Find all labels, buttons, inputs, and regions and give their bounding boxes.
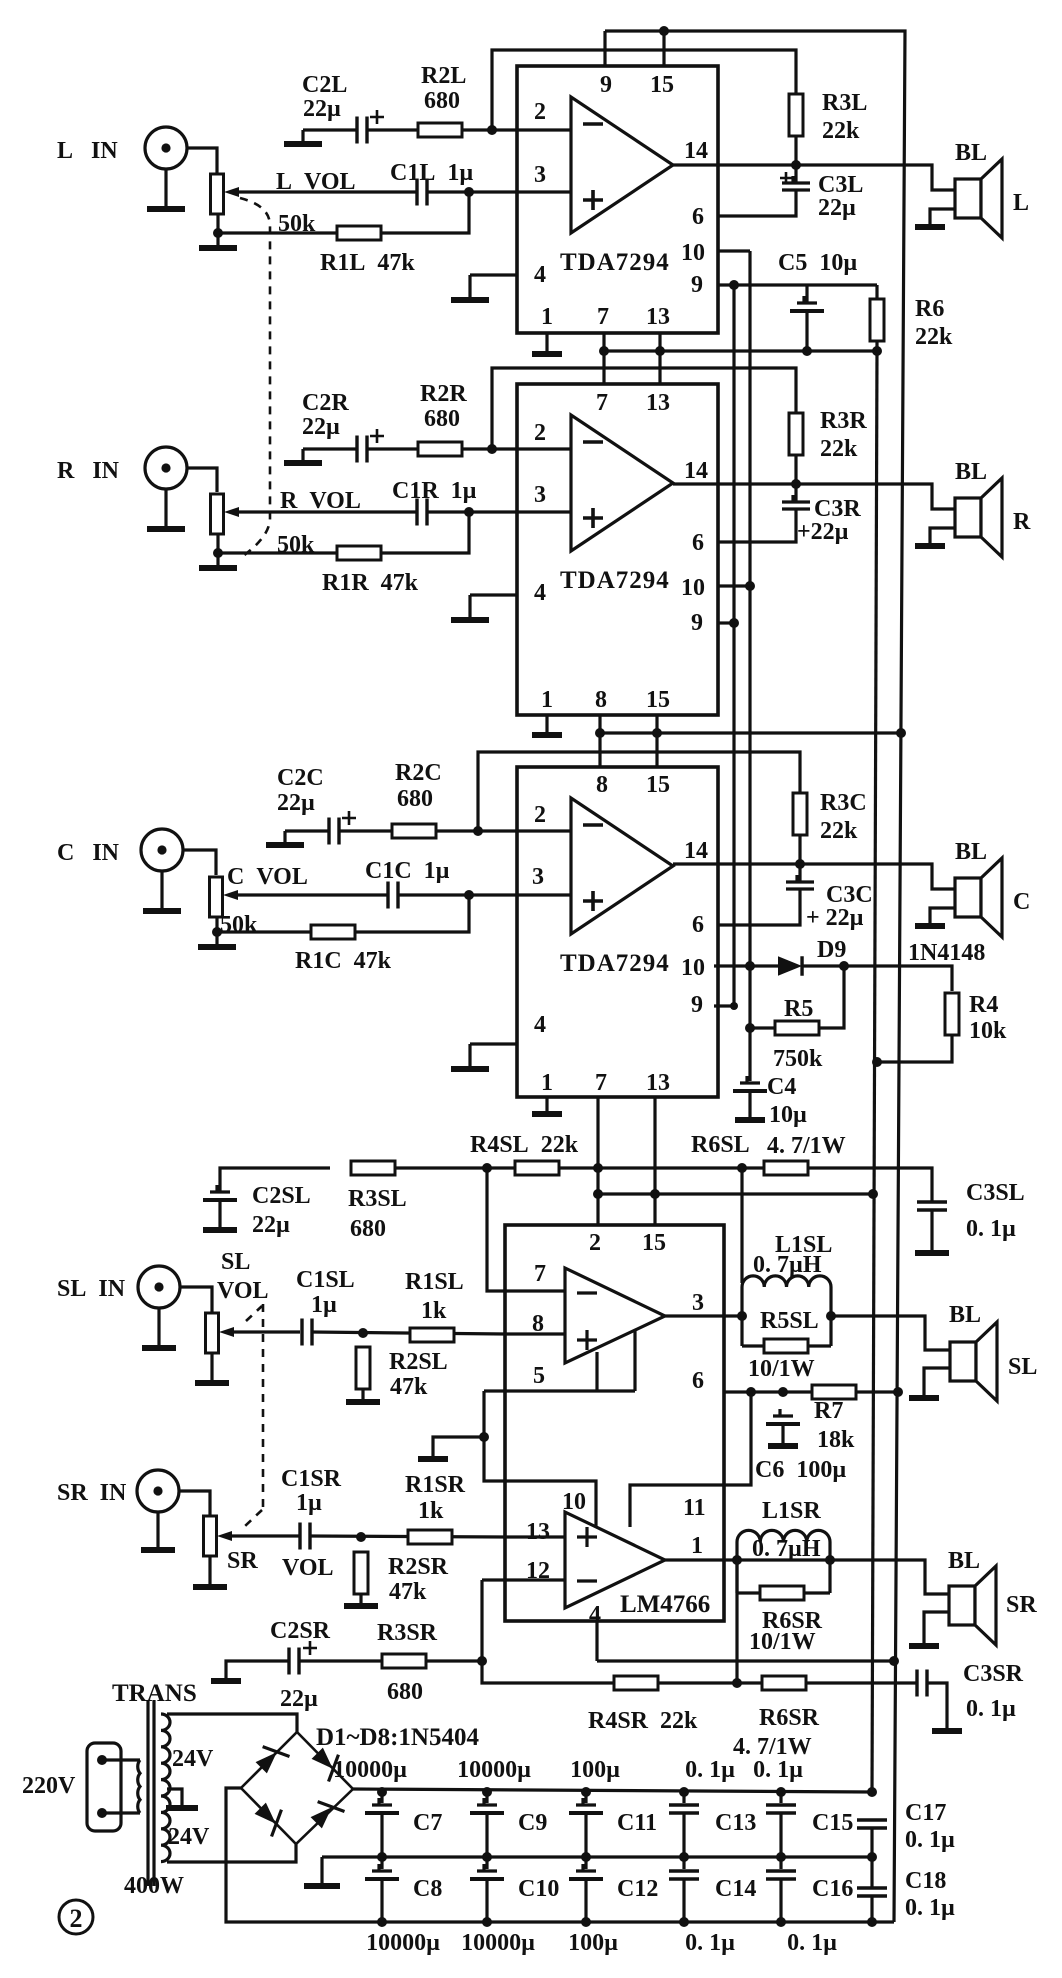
wire pin5-pin6 row inside (505, 1389, 635, 1392)
diode D9 1N4148 (778, 956, 802, 976)
svg-text:BL: BL (948, 1548, 980, 1574)
svg-text:C11: C11 (617, 1810, 657, 1836)
svg-text:13: 13 (646, 390, 670, 416)
ground speaker C (928, 924, 931, 927)
diode bridge bottom-left (252, 1798, 290, 1836)
wire pin 9 (C) to stby rail (714, 1004, 734, 1007)
resistor R6SR 10/1W (760, 1586, 804, 1600)
svg-text:C15: C15 (812, 1810, 853, 1836)
svg-text:C7: C7 (413, 1810, 442, 1836)
node R3L/output junction (791, 160, 801, 170)
node rail C middle rail (867, 1852, 877, 1862)
diode bridge bottom-right (306, 1793, 344, 1831)
ground under C pot (215, 932, 218, 947)
ground speaker L (928, 225, 931, 228)
wire to C10 (485, 1857, 488, 1869)
wire pin4 row to rail D (597, 1659, 894, 1662)
speaker BL R (955, 498, 981, 537)
wire C16 to bottom rail (779, 1879, 782, 1922)
svg-text:6: 6 (692, 1368, 704, 1394)
inductor L1SR 0.7uH (737, 1530, 830, 1542)
node R5 on mute rail (745, 1023, 755, 1033)
wire C7 to middle rail (380, 1813, 383, 1857)
node column 1 bottom (377, 1917, 387, 1927)
svg-text:3: 3 (534, 482, 546, 508)
resistor R1SR 1k (408, 1530, 452, 1544)
wire pin 4 stub C (470, 1042, 517, 1045)
node C15 top (776, 1787, 786, 1797)
wire R5SL leads (742, 1344, 831, 1347)
wire wiper to C1C (237, 893, 388, 896)
wire R3SL to R4SL (395, 1166, 515, 1169)
svg-text:R5: R5 (784, 996, 813, 1022)
wire pin 10 (C) to D9 (714, 964, 778, 967)
wire C IN to volume pot (183, 850, 216, 875)
node L1SR right on out row (825, 1555, 835, 1565)
wire to C18 (870, 1857, 873, 1888)
plus mark C2L (370, 110, 384, 124)
svg-text:1k: 1k (421, 1298, 447, 1324)
wire pins7/13 line y351 (604, 349, 877, 352)
wire ground to C2C (285, 829, 329, 832)
wire riser IC3 pin7 to IC4 pin2 (596, 1097, 599, 1225)
IC LM4766 box (505, 1225, 724, 1621)
svg-text:7: 7 (595, 1070, 607, 1096)
wire feedback line to R3L (492, 50, 796, 130)
node column 1 middle (377, 1852, 387, 1862)
svg-text:R3SL: R3SL (348, 1186, 407, 1212)
wire pin5/pin10 mute riser (484, 1391, 505, 1481)
resistor R5 750k (775, 1021, 819, 1035)
wiper arrow C VOL (223, 890, 238, 900)
svg-text:0. 7µH: 0. 7µH (752, 1536, 821, 1562)
wire pin15 riser IC2-IC3 (655, 715, 658, 767)
svg-text:L1SL: L1SL (775, 1232, 832, 1258)
resistor R2SR 47k (354, 1552, 368, 1594)
node junction pin15 riser on top rail (659, 26, 669, 36)
node pin3 feedback junction R (464, 507, 474, 517)
wire pin1 (IC1) to ground (545, 333, 548, 352)
svg-text:0. 1µ: 0. 1µ (753, 1757, 803, 1783)
wire line y733 to rail D (600, 731, 901, 734)
wire op-amp B out to pin1 (665, 1558, 724, 1561)
svg-text:6: 6 (692, 530, 704, 556)
node pin10(C) on mute rail (745, 961, 755, 971)
node SR output on zobel row (732, 1678, 742, 1688)
node pot bottom junction C (212, 927, 222, 937)
svg-text:680: 680 (424, 88, 460, 114)
wire pin 4 stub R (470, 593, 517, 596)
wire op-amp A out to pin3 (665, 1314, 724, 1317)
wire output pin14 row R (718, 484, 955, 509)
inductor L1SL 0.7uH (742, 1276, 831, 1287)
svg-text:R6: R6 (915, 296, 944, 322)
plug pin top (97, 1755, 107, 1765)
svg-text:10: 10 (681, 240, 705, 266)
wire secondary top to bridge (167, 1714, 297, 1732)
wire wiper to C1R (238, 510, 417, 513)
svg-text:3: 3 (534, 162, 546, 188)
capacitor C2SL 22u (210, 1185, 230, 1192)
wire to R1C (217, 930, 311, 933)
wire secondary centre tap (167, 1789, 182, 1806)
diode bridge top-right (309, 1743, 347, 1781)
svg-text:1N4148: 1N4148 (908, 940, 985, 966)
svg-text:BL: BL (955, 140, 987, 166)
svg-text:10000µ: 10000µ (461, 1930, 535, 1956)
svg-text:13: 13 (646, 1070, 670, 1096)
svg-text:2: 2 (589, 1230, 601, 1256)
wire R2L to pin 2 (462, 128, 517, 131)
wire D9 cathode to R4 (803, 966, 952, 991)
plus mark C3L (780, 172, 792, 184)
wire R2C to pin 2 (436, 829, 517, 832)
wire R3C to output (798, 835, 801, 864)
svg-text:14: 14 (684, 838, 708, 864)
wire C4 to ground (748, 1091, 751, 1118)
svg-text:C10: C10 (518, 1876, 559, 1902)
bridge rectifier diamond D1-D8 (241, 1732, 353, 1844)
svg-text:R2R: R2R (420, 381, 467, 407)
node pin2/R3R junction (487, 444, 497, 454)
wire pin10 to op-amp B (505, 1481, 596, 1527)
resistor R1R 47k (337, 546, 381, 560)
svg-text:LM4766: LM4766 (620, 1591, 710, 1618)
svg-text:50k: 50k (220, 912, 258, 938)
svg-text:10k: 10k (969, 1018, 1007, 1044)
capacitor C15 (766, 1805, 796, 1813)
svg-text:BL: BL (955, 839, 987, 865)
ground for C2R (301, 449, 304, 463)
svg-text:22µ: 22µ (302, 414, 340, 440)
svg-text:C5 10µ: C5 10µ (778, 250, 857, 276)
svg-text:R6SL: R6SL (691, 1132, 750, 1158)
wire C5 to lower line (805, 311, 808, 351)
svg-text:R1L 47k: R1L 47k (320, 250, 415, 276)
RCA jack SL IN (138, 1266, 180, 1308)
node R2SL junction (358, 1328, 368, 1338)
figure number 2 circled (59, 1900, 93, 1934)
transformer primary winding (138, 1760, 140, 1813)
resistor R3C 22k (793, 793, 807, 835)
capacitor C17 0.1u (857, 1820, 887, 1828)
svg-text:15: 15 (650, 72, 674, 98)
ground SL pot (210, 1381, 213, 1383)
svg-text:22µ: 22µ (280, 1686, 318, 1712)
node pin9(R) on stby rail (729, 618, 739, 628)
svg-text:15: 15 (646, 687, 670, 713)
RCA jack C IN (141, 829, 183, 871)
wire R4SL node down to pin 7 LM4766 (487, 1168, 505, 1291)
svg-text:C3SL: C3SL (966, 1180, 1025, 1206)
resistor R4 10k (945, 993, 959, 1035)
svg-text:50k: 50k (277, 532, 315, 558)
wire op-amp out to pin14 (673, 862, 718, 865)
wire bridge plus to top rail (353, 1789, 872, 1792)
resistor R3R 22k (789, 413, 803, 455)
svg-text:C VOL: C VOL (227, 864, 308, 890)
svg-text:1k: 1k (418, 1498, 444, 1524)
svg-text:750k: 750k (773, 1046, 823, 1072)
svg-text:1µ: 1µ (296, 1490, 322, 1516)
resistor R2SL 47k (356, 1347, 370, 1389)
svg-text:4: 4 (534, 1012, 546, 1038)
ground R2SL (361, 1400, 364, 1402)
wire output node riser to zobel row (740, 1168, 743, 1283)
potentiometer SL VOL (206, 1313, 219, 1353)
ground centre tap (180, 1806, 183, 1808)
capacitor C5 10u (797, 296, 817, 303)
svg-text:1: 1 (541, 687, 553, 713)
node rail C bottom rail (867, 1917, 877, 1927)
svg-text:22k: 22k (820, 818, 858, 844)
wire L IN to volume pot (187, 148, 217, 174)
node output riser on row 1168 (737, 1163, 747, 1173)
svg-text:C2L: C2L (302, 72, 347, 98)
dashed gang line L-R volume (240, 198, 270, 556)
svg-text:9: 9 (600, 72, 612, 98)
capacitor C8 (372, 1864, 392, 1871)
svg-text:R3L: R3L (822, 90, 867, 116)
RCA jack SR IN (137, 1470, 179, 1512)
svg-text:SR: SR (227, 1548, 258, 1574)
svg-text:BL: BL (949, 1302, 981, 1328)
capacitor C3SL 0.1u (917, 1202, 947, 1210)
svg-text:15: 15 (646, 772, 670, 798)
node C9 top (482, 1787, 492, 1797)
svg-text:680: 680 (350, 1216, 386, 1242)
capacitor C11 (576, 1798, 596, 1805)
wire pin5 riser to op-amp A (595, 1352, 598, 1391)
svg-text:10: 10 (681, 575, 705, 601)
wire standby rail (pin9 bus, x734) (732, 285, 735, 1006)
wire output pin14 row L (718, 165, 955, 190)
ground under R IN jack (164, 527, 167, 530)
wire R4SL to output node riser (559, 1166, 742, 1169)
wire pin 10 (R) to mute rail (718, 584, 750, 587)
wire pin2 into op-amp minus (517, 128, 571, 131)
svg-text:C13: C13 (715, 1810, 756, 1836)
capacitor C3SR 0.1u (917, 1670, 927, 1697)
wire R2SR to ground (359, 1594, 362, 1604)
ground speaker SR (922, 1644, 925, 1646)
svg-text:13: 13 (526, 1519, 550, 1545)
wire speaker SL lower to ground (924, 1368, 950, 1396)
capacitor C4 10u (740, 1076, 760, 1083)
capacitor C2R 22u electrolytic (357, 436, 367, 463)
wire to R1R (218, 551, 337, 554)
wiper arrow L VOL (224, 187, 239, 197)
svg-text:C6 100µ: C6 100µ (755, 1457, 846, 1483)
IC TDA7294 (L channel) box (517, 66, 718, 333)
wire pin2 into op-amp minus (517, 447, 571, 450)
wire feedback line to R3C (478, 752, 800, 831)
wire R2R to pin 2 (462, 447, 517, 450)
svg-text:2: 2 (534, 99, 546, 125)
node column 5 middle (776, 1852, 786, 1862)
mains plug 220V (87, 1743, 121, 1831)
svg-text:+22µ: +22µ (797, 519, 849, 545)
wire SL pot to ground (210, 1353, 213, 1381)
wire pin 15 riser to top rail (L) (662, 31, 665, 66)
svg-text:+ 22µ: + 22µ (806, 905, 864, 931)
node R4SL left junction (482, 1163, 492, 1173)
svg-text:2: 2 (534, 420, 546, 446)
svg-text:11: 11 (683, 1495, 706, 1521)
node column 4 middle (679, 1852, 689, 1862)
ground SR jack (156, 1548, 159, 1550)
wire to C12 (584, 1857, 587, 1869)
ground R2SR (359, 1604, 362, 1606)
wiper arrow R VOL (224, 507, 239, 517)
resistor R2L 680 (418, 123, 462, 137)
wire rail C (x874 supply rail down right side) (872, 351, 877, 1792)
node R3SR junction (477, 1656, 487, 1666)
wire SL jack to ground (157, 1308, 160, 1346)
wire R IN to volume pot (187, 468, 217, 492)
wire C3SR to ground (927, 1683, 947, 1729)
svg-text:C8: C8 (413, 1876, 442, 1902)
svg-text:C2R: C2R (302, 390, 349, 416)
IC TDA7294 (C channel) box (517, 767, 718, 1097)
resistor R2C 680 (392, 824, 436, 838)
resistor R3L 22k (789, 94, 803, 136)
svg-text:L1SR: L1SR (762, 1498, 821, 1524)
svg-text:8: 8 (532, 1311, 544, 1337)
diode bridge top-left (251, 1738, 289, 1776)
svg-text:47k: 47k (390, 1374, 428, 1400)
svg-text:18k: 18k (817, 1427, 855, 1453)
wire pin3 out row to speaker SL (831, 1316, 950, 1350)
svg-text:10000µ: 10000µ (457, 1757, 531, 1783)
wire middle rail (322, 1855, 872, 1858)
wire plug to primary (102, 1760, 140, 1813)
ground speaker R (928, 544, 931, 547)
wire C17 to middle rail (870, 1828, 873, 1857)
svg-text:R2SR: R2SR (388, 1554, 449, 1580)
svg-text:R7: R7 (814, 1398, 843, 1424)
wire pin4 riser (595, 1621, 598, 1661)
wire pin11 riser to op-amp B (630, 1485, 724, 1527)
node column 2 bottom (482, 1917, 492, 1927)
wire C2C to R2C (339, 829, 392, 832)
wire C1R to pin 3 (427, 510, 517, 513)
svg-text:10/1W: 10/1W (748, 1356, 815, 1382)
wire R3R to output (794, 455, 797, 484)
wire C11 to middle rail (584, 1813, 587, 1857)
wire pin1 (IC3) to ground (545, 1097, 548, 1112)
node pin4 on rail D (889, 1656, 899, 1666)
wire (742, 1166, 764, 1169)
node column 2 middle (482, 1852, 492, 1862)
svg-text:C14: C14 (715, 1876, 756, 1902)
speaker BL SR (949, 1586, 975, 1625)
node pin7 riser junction y351 (599, 346, 609, 356)
svg-text:10: 10 (681, 955, 705, 981)
svg-text:6: 6 (692, 204, 704, 230)
svg-text:R3R: R3R (820, 408, 867, 434)
wire C14 to bottom rail (682, 1879, 685, 1922)
wire C12 to bottom rail (584, 1879, 587, 1922)
capacitor C2C 22u electrolytic (329, 818, 339, 845)
svg-text:0. 1µ: 0. 1µ (685, 1930, 735, 1956)
ground pin 4 L (468, 275, 471, 300)
wire pot bottom to R1L row (216, 214, 219, 233)
wire to C16 (779, 1857, 782, 1869)
wire C13 to middle rail (682, 1813, 685, 1857)
svg-text:VOL: VOL (217, 1278, 269, 1304)
svg-text:9: 9 (691, 272, 703, 298)
node column 3 bottom (581, 1917, 591, 1927)
ground for C2L (301, 130, 304, 144)
speaker BL L (955, 179, 981, 218)
wire to C15 (779, 1792, 782, 1803)
RCA jack L IN (145, 127, 187, 169)
wire speaker L lower terminal to ground (930, 209, 955, 227)
wire SR jack to ground (156, 1512, 159, 1548)
svg-text:R2C: R2C (395, 760, 442, 786)
svg-text:24V: 24V (168, 1824, 210, 1850)
svg-text:680: 680 (397, 786, 433, 812)
wire pin7 riser IC1-IC2 (602, 333, 605, 384)
node pin3 feedback junction L (464, 187, 474, 197)
wire R6SR to C3SR (806, 1681, 916, 1684)
node pin9(L) on stby rail (729, 280, 739, 290)
node R3C/output junction (795, 859, 805, 869)
wire pin8 into op-amp A plus (505, 1332, 565, 1335)
svg-text:4: 4 (534, 262, 546, 288)
svg-text:C16: C16 (812, 1876, 853, 1902)
ground pin 1 IC2 (545, 733, 548, 735)
node C6 on pin6 row (778, 1387, 788, 1397)
wire pin 9 riser to top rail (L) (603, 31, 606, 66)
capacitor C12 (576, 1864, 596, 1871)
svg-text:8: 8 (595, 687, 607, 713)
svg-text:1: 1 (541, 1070, 553, 1096)
svg-text:14: 14 (684, 458, 708, 484)
ground SL jack (157, 1346, 160, 1348)
capacitor C3L 22u (718, 165, 810, 216)
transformer secondary winding (161, 1714, 170, 1862)
node C13 top (679, 1787, 689, 1797)
potentiometer C VOL 50k (210, 877, 223, 917)
svg-text:10µ: 10µ (769, 1102, 807, 1128)
wire speaker R lower terminal to ground (930, 528, 955, 546)
svg-text:1: 1 (541, 304, 553, 330)
svg-text:C12: C12 (617, 1876, 658, 1902)
node mute ground riser (479, 1432, 489, 1442)
capacitor C1R 1u (417, 499, 427, 526)
ground R1SR stub (431, 1457, 434, 1460)
wire jack to ground (164, 489, 167, 529)
capacitor C16 (766, 1871, 796, 1879)
wire R6 top feed (875, 285, 878, 351)
svg-text:R3SR: R3SR (377, 1620, 438, 1646)
wire pin6 row (724, 1390, 814, 1393)
svg-text:9: 9 (691, 610, 703, 636)
svg-text:7: 7 (534, 1261, 546, 1287)
ground SR pot (208, 1585, 211, 1587)
wire pot bottom to R1C row (215, 917, 218, 932)
wire pin3 into op-amp plus (517, 510, 571, 513)
svg-text:SL IN: SL IN (57, 1276, 126, 1302)
wire ground to C2R (303, 447, 357, 450)
resistor R6SR 4.7/1W (762, 1676, 806, 1690)
transformer core (148, 1700, 154, 1886)
svg-text:400W: 400W (124, 1873, 184, 1899)
wire jack to ground (160, 871, 163, 911)
resistor R3SR 680 (382, 1654, 426, 1668)
